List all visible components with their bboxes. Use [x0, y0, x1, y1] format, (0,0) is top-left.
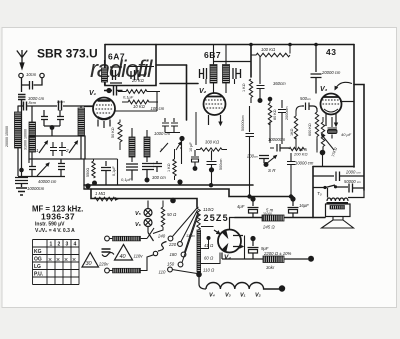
- capacitor 10000cm: [15, 178, 28, 188]
- svg-text:3okr: 3okr: [266, 265, 275, 270]
- svg-text:1: 1: [50, 242, 53, 248]
- wire mains b link: [110, 255, 154, 271]
- svg-text:40: 40: [120, 254, 127, 260]
- lamp V6: [144, 219, 152, 227]
- table band grid: [33, 240, 80, 285]
- transformer core: [327, 202, 349, 204]
- tube V1: [93, 98, 115, 129]
- svg-text:6B7: 6B7: [204, 50, 221, 60]
- capacitor 10cm: [22, 78, 43, 92]
- resistor 100K: [251, 45, 290, 57]
- svg-text:2000 cm: 2000 cm: [345, 170, 361, 175]
- capacitor 8cm a: [24, 102, 27, 111]
- coil field: [263, 256, 284, 263]
- capacitor 16uF body: [288, 201, 299, 218]
- trimmer padder arrow: [37, 163, 49, 176]
- capacitor grid V1: [104, 86, 123, 96]
- capacitor IF1 a: [126, 164, 138, 181]
- coil ant primary: [15, 112, 22, 148]
- wire coil1 top: [17, 106, 19, 177]
- terminal 220: [178, 242, 183, 247]
- trimmer 2: [69, 141, 78, 153]
- transformer output primary: [327, 198, 348, 201]
- wire grid arrow 43: [335, 82, 352, 89]
- node 550 bottom: [92, 181, 97, 186]
- wire avc row: [270, 125, 274, 148]
- resistor 50 ohm: [153, 201, 165, 234]
- node 360 gnd: [258, 98, 263, 103]
- resistor ballast zig: [197, 207, 200, 230]
- svg-text:10 μF: 10 μF: [189, 142, 193, 152]
- resistor 20K leads: [128, 67, 154, 75]
- capacitor V3 couple: [311, 45, 322, 94]
- selector fan lines: [172, 208, 199, 274]
- svg-text:500cm: 500cm: [300, 96, 312, 101]
- svg-text:200 KΩ: 200 KΩ: [293, 152, 308, 157]
- wire 6A7 to 6B7 links: [156, 65, 198, 84]
- wire IF2 feeds: [206, 45, 235, 94]
- switch SR: [266, 156, 277, 165]
- wire B+ bus: [235, 217, 325, 219]
- svg-text:31000: 31000: [263, 212, 272, 216]
- svg-text:8cm: 8cm: [29, 100, 37, 105]
- resistor 550: [92, 159, 95, 178]
- svg-text:150: 150: [167, 262, 175, 267]
- resistor 1K vert: [173, 149, 176, 180]
- node grid cap V1: [106, 88, 111, 93]
- wire V3 plate: [340, 101, 354, 103]
- capacitor 3000cm: [18, 95, 26, 107]
- svg-text:600 KΩ: 600 KΩ: [308, 123, 312, 136]
- node tap top: [207, 236, 211, 240]
- capacitor 40uF: [328, 117, 338, 139]
- svg-text:500cm: 500cm: [219, 159, 223, 170]
- svg-text:60 Ω: 60 Ω: [204, 256, 214, 261]
- resistor 300K: [196, 112, 227, 151]
- wire mains a link: [110, 228, 155, 239]
- wire screen col lower: [250, 98, 252, 104]
- wire branch to speaker column: [354, 85, 364, 191]
- svg-text:V₄: V₄: [209, 293, 215, 299]
- wire detector column: [186, 65, 188, 120]
- resistor grid-leak R osc: [118, 90, 155, 94]
- capacitor osc a: [110, 67, 122, 83]
- capacitor det couple: [162, 118, 180, 133]
- capacitor 0.1uF cath: [101, 161, 111, 185]
- choke filter: [262, 215, 284, 221]
- capacitor 8cm b: [59, 101, 62, 111]
- svg-text:SBR 373.U: SBR 373.U: [37, 47, 98, 61]
- lamp V5 cross: [145, 210, 151, 216]
- capacitor 16uF: [290, 196, 295, 201]
- svg-text:10 KΩ: 10 KΩ: [133, 104, 146, 109]
- wire pad stem: [51, 129, 53, 136]
- wire screen column: [250, 45, 252, 78]
- choke mains a: [113, 236, 141, 241]
- svg-text:240: 240: [157, 234, 166, 239]
- svg-text:1 MΩ: 1 MΩ: [95, 191, 106, 196]
- capacitor 200cm: [259, 156, 269, 164]
- resistor ballast body: [197, 230, 201, 272]
- resistor 1K screen: [249, 79, 252, 98]
- trimmer IF1 arrows: [160, 142, 181, 152]
- coil IF2 primary 6B7: [210, 65, 217, 84]
- capacitor osc b: [131, 70, 146, 80]
- capacitor 4uF: [250, 196, 255, 201]
- svg-text:245 Ω: 245 Ω: [262, 225, 275, 230]
- capacitor pair mid: [41, 110, 64, 126]
- tube V3: [321, 94, 342, 127]
- resistor 77K pot: [321, 117, 324, 153]
- resistor 200K: [289, 147, 306, 150]
- svg-text:30: 30: [86, 261, 93, 267]
- terminal antenna: [19, 73, 23, 77]
- speaker cone: [322, 220, 354, 228]
- wire plate link: [115, 92, 161, 112]
- svg-text:110: 110: [159, 270, 166, 275]
- svg-text:50000cm: 50000cm: [241, 115, 245, 131]
- coil osc tank: [78, 108, 85, 136]
- svg-text:10cm: 10cm: [26, 72, 37, 77]
- svg-text:V₂: V₂: [255, 293, 261, 299]
- capacitor padder b: [58, 159, 65, 176]
- wire ground stem: [21, 106, 23, 176]
- coil IF1 secondary: [144, 137, 150, 157]
- terminal 180: [181, 252, 186, 257]
- svg-text:110Ω: 110Ω: [203, 207, 214, 212]
- svg-text:31000 10000: 31000 10000: [24, 129, 28, 150]
- node bus j3: [288, 43, 292, 47]
- svg-text:43: 43: [326, 47, 336, 57]
- wire chassis bus A: [84, 184, 253, 186]
- triangle 30: [82, 253, 99, 268]
- switch To: [313, 185, 348, 188]
- terminal 240: [168, 236, 173, 241]
- node bus j1: [249, 43, 253, 47]
- capacitor IF2 right: [214, 62, 251, 80]
- svg-text:550Ω: 550Ω: [86, 168, 90, 177]
- node line C tap: [170, 198, 176, 204]
- wire padder bottom: [18, 175, 65, 178]
- choke mains b: [113, 268, 141, 273]
- node ant ground: [19, 168, 24, 173]
- node 80K top: [268, 97, 273, 102]
- node step j6: [289, 194, 293, 198]
- terminal mains b: [105, 268, 110, 273]
- svg-text:10000cm: 10000cm: [27, 186, 45, 191]
- antenna: [17, 50, 27, 69]
- svg-text:OG: OG: [34, 257, 42, 263]
- svg-text:2200 Ω ± 10%: 2200 Ω ± 10%: [263, 251, 292, 256]
- wire top bus: [105, 44, 354, 46]
- mains plug: [102, 249, 111, 252]
- svg-text:KG: KG: [34, 249, 42, 255]
- wire 43-box bottom: [313, 166, 354, 168]
- capacitor 50000cm out: [349, 184, 364, 193]
- wire ballast taps: [201, 227, 220, 264]
- svg-text:100 KΩ: 100 KΩ: [261, 47, 276, 52]
- svg-text:41 Ω: 41 Ω: [204, 243, 214, 248]
- wire mains line C: [91, 189, 197, 207]
- resistor 1K avc: [294, 106, 302, 149]
- speaker neck: [333, 217, 343, 221]
- svg-text:V₁: V₁: [240, 293, 246, 299]
- terminal plug pin: [153, 251, 157, 255]
- wire transformer leads: [328, 188, 365, 198]
- svg-text:220: 220: [168, 242, 177, 247]
- trimmer pot arrow: [322, 135, 335, 151]
- heater chain humps: [206, 283, 280, 290]
- wire selector box edge: [29, 136, 118, 185]
- node bus A left: [85, 183, 90, 188]
- wire chassis bus B with step: [84, 189, 293, 197]
- svg-text:360cm: 360cm: [273, 81, 286, 86]
- svg-text:1: 1: [160, 147, 162, 152]
- svg-text:20000 cm: 20000 cm: [321, 70, 341, 75]
- svg-text:300 cm: 300 cm: [152, 175, 166, 180]
- capacitor 9uF: [250, 236, 255, 241]
- svg-text:3: 3: [66, 242, 69, 248]
- speaker body: [326, 204, 351, 217]
- svg-text:1936-37: 1936-37: [41, 212, 75, 222]
- coil IF2 secondary 6B7: [223, 65, 230, 84]
- capacitor avc: [277, 144, 289, 152]
- svg-text:×: ×: [64, 257, 68, 264]
- svg-text:10000cm: 10000cm: [268, 137, 286, 142]
- svg-text:Instr. 590 μV: Instr. 590 μV: [35, 222, 65, 228]
- tube V2: [204, 93, 226, 125]
- svg-text:50000 cm: 50000 cm: [344, 179, 361, 184]
- node SR: [264, 162, 269, 167]
- capacitor trim mid: [50, 142, 66, 156]
- terminal mains a: [105, 236, 110, 241]
- speaker coil secondary: [330, 206, 345, 210]
- resistor 50K cathode: [118, 120, 122, 151]
- wire output left column: [312, 167, 314, 218]
- terminal 110: [168, 267, 173, 272]
- coil IF1 primary: [129, 137, 135, 157]
- capacitor 50000cm: [246, 106, 255, 197]
- svg-text:V₂: V₂: [199, 88, 207, 95]
- svg-text:110Ω: 110Ω: [186, 233, 195, 238]
- wire selector flex: [158, 242, 167, 252]
- wire antenna coupling line: [18, 105, 93, 107]
- wire heater drop: [199, 276, 206, 289]
- svg-text:200cm: 200cm: [246, 154, 259, 159]
- svg-text:LG: LG: [34, 264, 41, 270]
- svg-text:40000 cm: 40000 cm: [38, 179, 57, 184]
- terminal earth: [40, 73, 44, 77]
- wire field coil line: [222, 253, 308, 260]
- tube V4 rectifier: [214, 230, 245, 260]
- switch To pivot: [323, 186, 326, 189]
- capacitor 500 plate: [302, 103, 317, 113]
- capacitor 9uF body: [248, 241, 259, 259]
- svg-text:0,1μF: 0,1μF: [112, 166, 116, 176]
- wire det stem: [180, 141, 182, 164]
- resistor 600K: [315, 108, 318, 153]
- node det: [179, 136, 184, 141]
- trimmer 1: [39, 141, 48, 153]
- wire osc coil leads: [104, 60, 106, 86]
- svg-text:220v: 220v: [98, 262, 109, 267]
- svg-text:4: 4: [74, 242, 77, 248]
- resistor 80K: [268, 99, 271, 126]
- switch To contact: [334, 185, 337, 188]
- svg-text:25Z5: 25Z5: [204, 213, 229, 223]
- svg-text:25 Ω: 25 Ω: [298, 148, 307, 152]
- svg-text:0,1μF: 0,1μF: [123, 95, 134, 100]
- svg-text:4μF: 4μF: [237, 204, 245, 209]
- node IF1 gnd: [145, 178, 150, 183]
- wire coil3 leads: [81, 106, 84, 190]
- capacitor 2000cm out: [313, 172, 364, 182]
- svg-text:V₃: V₃: [320, 86, 328, 93]
- svg-text:P.U.: P.U.: [34, 272, 44, 278]
- svg-text:6A7: 6A7: [108, 52, 125, 62]
- node field end: [308, 256, 314, 262]
- svg-text:V₄: V₄: [224, 254, 231, 261]
- node cathode gnd: [320, 150, 326, 156]
- switch heater: [148, 233, 154, 242]
- svg-text:1 KΩ: 1 KΩ: [167, 163, 171, 172]
- wire V1 left lead: [84, 106, 93, 108]
- wire 43-box right edge: [353, 45, 355, 168]
- capacitor IF1 c: [153, 161, 162, 172]
- node 500cm mid: [209, 167, 214, 172]
- svg-text:80 KΩ: 80 KΩ: [273, 109, 277, 120]
- svg-text:10000 cm: 10000 cm: [295, 161, 314, 166]
- svg-text:2000cm: 2000cm: [285, 106, 289, 120]
- terminal 150: [178, 262, 183, 267]
- svg-text:×: ×: [48, 257, 52, 264]
- capacitor 10uF: [191, 150, 199, 168]
- svg-text:110 Ω: 110 Ω: [203, 268, 215, 273]
- svg-text:×: ×: [56, 257, 60, 264]
- node bus j2: [314, 43, 318, 47]
- wire lamp feed: [147, 201, 149, 233]
- svg-text:20 KΩ: 20 KΩ: [131, 78, 145, 83]
- svg-text:1 KΩ: 1 KΩ: [242, 83, 246, 92]
- resistor 1M mains: [94, 197, 118, 201]
- coil ant secondary: [29, 122, 36, 152]
- capacitor IF1 b: [142, 164, 154, 179]
- node busA j4: [209, 183, 213, 187]
- svg-text:118v: 118v: [134, 254, 144, 259]
- svg-text:T₀: T₀: [317, 191, 322, 196]
- svg-text:2: 2: [58, 242, 61, 248]
- svg-text:20000 15000: 20000 15000: [5, 126, 9, 147]
- triangle 40: [115, 245, 133, 261]
- wire IF1 tops: [132, 128, 147, 162]
- capacitor 360cm: [257, 56, 265, 99]
- capacitor 500cm mid: [207, 151, 217, 168]
- capacitor 10000cm right: [287, 153, 296, 197]
- node ballast bottom: [196, 272, 202, 278]
- node det gnd: [177, 179, 182, 184]
- svg-text:V₅: V₅: [135, 211, 142, 217]
- capacitor 2000cm vert: [278, 100, 286, 144]
- svg-text:V₁: V₁: [89, 90, 97, 97]
- box 6A7: [105, 45, 156, 86]
- wire V4 output: [229, 218, 235, 230]
- svg-text:V₆: V₆: [135, 222, 142, 228]
- lamp V5: [144, 209, 152, 217]
- svg-text:1KΩ: 1KΩ: [290, 128, 294, 136]
- svg-text:1000 cm: 1000 cm: [154, 131, 171, 136]
- capacitor padder a: [29, 163, 36, 176]
- wire 500cm gnd: [211, 172, 213, 185]
- svg-text:V₃: V₃: [225, 293, 231, 299]
- lamp V6 cross: [145, 220, 151, 226]
- node step j5: [247, 194, 251, 198]
- ground: [16, 188, 27, 195]
- svg-text:40 μF: 40 μF: [341, 132, 352, 137]
- svg-text:300 KΩ: 300 KΩ: [205, 140, 220, 145]
- svg-text:0,1μF: 0,1μF: [121, 177, 132, 182]
- svg-text:×: ×: [72, 257, 76, 264]
- coil osc 6A7: [102, 68, 108, 82]
- svg-text:180: 180: [170, 252, 178, 257]
- svg-text:100 cm: 100 cm: [151, 106, 165, 111]
- svg-text:50 KΩ: 50 KΩ: [111, 127, 115, 138]
- svg-text:V₁/V₆ = 4 V. 0.3 A: V₁/V₆ = 4 V. 0.3 A: [35, 228, 75, 234]
- node heater end: [279, 285, 285, 291]
- box trimmer bank: [29, 136, 85, 159]
- svg-text:S R: S R: [268, 168, 276, 173]
- svg-text:50 Ω: 50 Ω: [167, 212, 177, 217]
- capacitor IF2 left: [200, 68, 207, 79]
- wire coil2 leads: [31, 106, 33, 164]
- svg-text:16μF: 16μF: [299, 203, 309, 208]
- node padding mid: [50, 125, 55, 130]
- capacitor 4uF body: [248, 201, 259, 218]
- node 10uF gnd: [193, 166, 198, 171]
- resistor 10K: [122, 100, 158, 104]
